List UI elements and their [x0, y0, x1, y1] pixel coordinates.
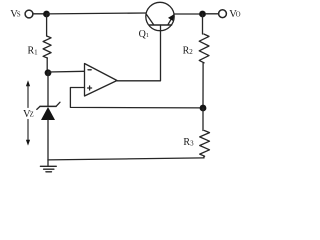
wire feedback: divider node to op-amp non-inverting input — [70, 88, 203, 108]
resistor R1 — [43, 14, 51, 70]
terminal Vo — [219, 10, 227, 18]
junction dot (node A: R1/zener/op-amp) — [45, 69, 52, 76]
wire op-amp output to base — [117, 31, 161, 81]
junction dot (divider node) — [200, 105, 207, 112]
svg-text:R1: R1 — [28, 46, 39, 57]
svg-text:R2: R2 — [183, 45, 194, 56]
wire Vs to junction — [33, 13, 43, 15]
ground — [40, 160, 56, 172]
svg-text:VZ: VZ — [23, 109, 34, 120]
Vz measurement arrow — [26, 80, 30, 145]
wire junction to Vo terminal — [206, 13, 219, 15]
wire node A to op-amp inverting input — [48, 70, 85, 73]
wire zener to bottom rail — [47, 120, 49, 160]
terminal Vs — [25, 10, 33, 18]
wire node A down to zener — [47, 73, 49, 106]
resistor R2 — [199, 14, 209, 105]
svg-text:Q1: Q1 — [139, 29, 149, 40]
wire top rail to Q1 collector — [47, 12, 147, 15]
wire Q1 emitter to junction — [174, 13, 200, 15]
junction dot (Vs node) — [43, 11, 50, 18]
svg-text:VS: VS — [10, 9, 21, 20]
bottom rail wire — [48, 158, 204, 160]
zener diode (Vz) — [37, 102, 60, 120]
transistor Q1 — [146, 2, 174, 31]
op-amp U1 — [85, 64, 118, 97]
resistor R3 — [200, 108, 210, 158]
svg-text:VO: VO — [229, 9, 240, 20]
junction dot (Vo node) — [199, 11, 206, 18]
svg-text:R3: R3 — [183, 137, 194, 148]
